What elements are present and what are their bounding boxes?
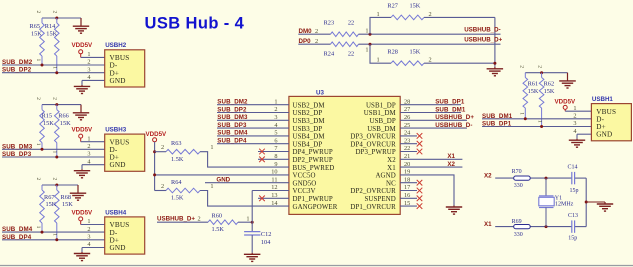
svg-text:GANGPOWER: GANGPOWER (293, 204, 338, 211)
svg-text:DP4_OVRCUR: DP4_OVRCUR (350, 141, 396, 148)
svg-text:1: 1 (87, 135, 90, 142)
svg-text:X1: X1 (447, 153, 455, 160)
svg-text:1: 1 (210, 183, 213, 190)
svg-text:USB2_DM: USB2_DM (293, 102, 325, 109)
svg-text:2: 2 (198, 216, 201, 223)
svg-text:USB_DM: USB_DM (367, 126, 396, 133)
svg-text:1: 1 (377, 11, 380, 18)
svg-text:R69: R69 (512, 219, 522, 225)
svg-text:15K: 15K (544, 88, 555, 95)
svg-text:2: 2 (35, 11, 41, 14)
svg-text:SUB_DP2: SUB_DP2 (2, 67, 32, 74)
svg-text:3: 3 (87, 151, 90, 158)
svg-text:R63: R63 (171, 140, 182, 147)
svg-text:DP2_OVRCUR: DP2_OVRCUR (350, 188, 396, 195)
svg-text:SUB_DM4: SUB_DM4 (2, 226, 33, 233)
svg-text:15K: 15K (46, 201, 57, 208)
svg-text:SUB_DP2: SUB_DP2 (217, 106, 247, 113)
svg-text:2: 2 (573, 113, 576, 120)
svg-text:1: 1 (210, 144, 213, 151)
svg-text:U3: U3 (316, 89, 324, 96)
svg-text:330: 330 (514, 183, 523, 189)
svg-text:1: 1 (52, 233, 58, 236)
svg-text:2: 2 (35, 178, 41, 181)
svg-text:DP1_PWRUP: DP1_PWRUP (293, 196, 333, 203)
svg-text:VDD5V: VDD5V (72, 127, 94, 134)
svg-text:12MHz: 12MHz (555, 201, 574, 207)
svg-text:GND: GND (110, 77, 126, 85)
svg-text:GND: GND (110, 244, 126, 252)
svg-text:SUB_DM1: SUB_DM1 (482, 113, 513, 120)
svg-text:R64: R64 (171, 179, 182, 186)
svg-text:15K: 15K (528, 88, 539, 95)
svg-text:R28: R28 (387, 49, 398, 56)
svg-text:X2: X2 (484, 172, 492, 179)
svg-text:1.5K: 1.5K (171, 195, 184, 202)
svg-text:22: 22 (348, 50, 354, 57)
svg-text:GND5O: GND5O (293, 180, 317, 187)
svg-text:15K: 15K (31, 30, 42, 37)
svg-text:1: 1 (365, 28, 368, 35)
svg-text:R61: R61 (528, 81, 539, 88)
svg-text:SUB_DM2: SUB_DM2 (2, 59, 33, 66)
svg-text:1.5K: 1.5K (212, 226, 225, 233)
svg-text:R67: R67 (44, 194, 55, 201)
svg-text:BUS_PWRED: BUS_PWRED (293, 165, 335, 172)
svg-text:SUB_DM3: SUB_DM3 (217, 114, 248, 121)
svg-text:SUSPEND: SUSPEND (364, 196, 395, 203)
svg-text:2: 2 (518, 65, 524, 68)
svg-text:R23: R23 (324, 20, 335, 27)
svg-text:1: 1 (52, 151, 58, 154)
svg-text:USBHUB_D-: USBHUB_D- (464, 26, 500, 33)
svg-text:2: 2 (315, 38, 318, 45)
svg-text:2: 2 (52, 97, 58, 100)
svg-text:1: 1 (377, 56, 380, 63)
svg-text:GND: GND (596, 131, 612, 139)
svg-text:1: 1 (573, 105, 576, 112)
svg-text:SUB_DP4: SUB_DP4 (217, 138, 247, 145)
svg-text:C13: C13 (568, 213, 578, 219)
svg-text:DP4_PWRUP: DP4_PWRUP (293, 149, 333, 156)
svg-text:SUB_DP4: SUB_DP4 (2, 234, 32, 241)
svg-text:USB2_DP: USB2_DP (293, 110, 323, 117)
svg-text:C12: C12 (261, 231, 272, 238)
svg-text:15K: 15K (60, 120, 71, 127)
svg-text:NC: NC (386, 180, 396, 187)
svg-text:330: 330 (514, 232, 523, 238)
svg-text:DP3_PWRUP: DP3_PWRUP (355, 149, 395, 156)
svg-text:15K: 15K (43, 120, 54, 127)
svg-text:2: 2 (35, 97, 41, 100)
svg-text:3: 3 (87, 66, 90, 73)
svg-text:SUB_DP3: SUB_DP3 (217, 122, 247, 129)
svg-text:SUB_DM4: SUB_DM4 (217, 130, 248, 137)
svg-text:1: 1 (35, 143, 41, 146)
svg-text:2: 2 (536, 65, 542, 68)
svg-text:2: 2 (429, 56, 432, 63)
svg-text:R70: R70 (512, 169, 522, 175)
svg-text:2: 2 (52, 178, 58, 181)
svg-text:USB1_DM: USB1_DM (364, 110, 396, 117)
svg-text:X1: X1 (387, 165, 396, 172)
svg-text:15p: 15p (568, 236, 577, 242)
svg-text:22: 22 (348, 20, 354, 27)
svg-text:X2: X2 (447, 161, 455, 168)
svg-text:2: 2 (52, 11, 58, 14)
svg-text:1: 1 (87, 218, 90, 225)
svg-text:USBH4: USBH4 (105, 209, 127, 216)
svg-text:USB3_DP: USB3_DP (293, 126, 323, 133)
svg-text:USB Hub - 4: USB Hub - 4 (145, 15, 245, 33)
svg-text:R24: R24 (324, 50, 335, 57)
svg-text:SUB_DP3: SUB_DP3 (2, 151, 32, 158)
svg-text:1: 1 (35, 59, 41, 62)
svg-text:1: 1 (52, 66, 58, 69)
svg-text:1.5K: 1.5K (171, 156, 184, 163)
svg-text:R27: R27 (387, 3, 398, 10)
svg-text:3: 3 (87, 234, 90, 241)
svg-text:R14: R14 (45, 23, 56, 30)
svg-text:SUB_DM3: SUB_DM3 (2, 143, 33, 150)
svg-text:15p: 15p (570, 188, 579, 194)
svg-text:USB4_DM: USB4_DM (293, 134, 325, 141)
svg-text:USB3_DM: USB3_DM (293, 118, 325, 125)
svg-text:DP0: DP0 (299, 38, 312, 45)
svg-text:VDD5V: VDD5V (72, 42, 94, 49)
svg-text:SUB_DP1: SUB_DP1 (482, 121, 512, 128)
svg-text:USBHUB_D+: USBHUB_D+ (464, 36, 502, 43)
svg-text:DP2_PWRUP: DP2_PWRUP (293, 157, 333, 164)
svg-text:R15: R15 (42, 113, 53, 120)
svg-text:15K: 15K (46, 30, 57, 37)
svg-text:1: 1 (246, 216, 249, 223)
svg-text:USBH2: USBH2 (105, 42, 127, 49)
svg-text:R66: R66 (58, 113, 69, 120)
svg-text:VCC5O: VCC5O (293, 173, 316, 180)
svg-text:USBHUB_D-: USBHUB_D- (435, 122, 472, 129)
svg-text:USB_DP: USB_DP (370, 118, 396, 125)
svg-text:GND: GND (216, 176, 230, 183)
svg-text:3: 3 (573, 120, 576, 127)
svg-text:15K: 15K (62, 201, 73, 208)
svg-text:2: 2 (87, 143, 90, 150)
svg-text:DM0: DM0 (299, 28, 313, 35)
svg-text:X1: X1 (484, 221, 492, 228)
svg-text:2: 2 (161, 144, 164, 151)
svg-text:R60: R60 (212, 212, 223, 219)
svg-text:X2: X2 (387, 157, 396, 164)
svg-text:2: 2 (87, 59, 90, 66)
svg-text:1: 1 (87, 51, 90, 58)
svg-text:USBH3: USBH3 (105, 127, 127, 134)
svg-text:15K: 15K (410, 3, 421, 10)
svg-text:2: 2 (315, 28, 318, 35)
svg-text:SUB_DM1: SUB_DM1 (435, 106, 466, 113)
svg-text:R65: R65 (30, 23, 41, 30)
svg-text:SUB_DP1: SUB_DP1 (435, 99, 465, 106)
svg-text:USB1_DP: USB1_DP (366, 102, 396, 109)
svg-text:VDD5V: VDD5V (146, 131, 168, 138)
svg-text:2: 2 (429, 11, 432, 18)
svg-text:VDD5V: VDD5V (72, 209, 94, 216)
svg-text:DP1_OVRCUR: DP1_OVRCUR (350, 204, 396, 211)
svg-text:R62: R62 (544, 81, 555, 88)
svg-text:C14: C14 (568, 164, 578, 170)
svg-text:1: 1 (536, 120, 542, 123)
svg-text:VCC3V: VCC3V (293, 188, 316, 195)
svg-text:15K: 15K (410, 49, 421, 56)
svg-text:104: 104 (261, 239, 271, 246)
svg-text:USBHUB_D+: USBHUB_D+ (157, 215, 195, 222)
svg-text:1: 1 (35, 226, 41, 229)
svg-text:2: 2 (87, 226, 90, 233)
svg-text:USB4_DP: USB4_DP (293, 141, 323, 148)
svg-text:2: 2 (161, 183, 164, 190)
svg-text:1: 1 (518, 112, 524, 115)
svg-text:R68: R68 (61, 194, 72, 201)
svg-text:GND: GND (110, 161, 126, 169)
svg-text:1: 1 (365, 47, 368, 54)
svg-text:SUB_DM2: SUB_DM2 (217, 99, 248, 106)
svg-text:USBHUB_D+: USBHUB_D+ (435, 114, 474, 121)
svg-text:AGND: AGND (375, 173, 395, 180)
svg-text:DP3_OVRCUR: DP3_OVRCUR (350, 134, 396, 141)
svg-text:USBH1: USBH1 (592, 96, 614, 103)
